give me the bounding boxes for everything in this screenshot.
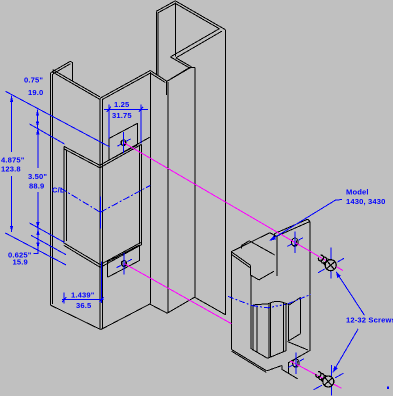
strike cavity left wall vertical (252, 305, 254, 350)
strike faceplate top back edge (275, 219, 308, 233)
screw 2 starburst arm lower left (314, 385, 322, 390)
upper hole crosshair left arm (117, 144, 121, 146)
jamb rabbet ridge outer (100, 71, 150, 99)
strike pocket left edge inner vertical (65, 150, 67, 242)
upper hole crosshair right arm (126, 139, 130, 141)
centerline right arm (100, 185, 150, 212)
jamb backbend right vertical (149, 72, 151, 304)
lower mounting hole ring (122, 261, 127, 267)
dimension 3.50 bottom arrow (36, 222, 39, 229)
strike pocket top left arm outer (64, 146, 100, 165)
strike centerline dash segment 3 (268, 304, 288, 308)
strike lower hole crosshair right arm (300, 359, 304, 361)
strike cavity left wall top (253, 304, 269, 305)
strike body bottom front edge inner (232, 351, 267, 372)
strike body bottom front edge (232, 350, 267, 371)
lower hole crosshair left arm (117, 265, 121, 267)
dimension 1.439 tick right (99, 297, 103, 302)
svg-text:3.50": 3.50" (28, 172, 47, 181)
extension line d3 (30, 223, 65, 243)
strike pocket bottom right arm inner (100, 245, 141, 268)
screw 1 head outer (325, 260, 336, 271)
jamb rabbet top edge outer (53, 70, 100, 97)
jamb face flange inner vertical (72, 63, 74, 81)
jamb front corner vertical outer (99, 98, 101, 329)
tall frame stop front top edge (167, 68, 189, 82)
jamb bottom left edge (50, 305, 100, 330)
magenta projection line from lower hole part 1 (124, 264, 231, 324)
strike centerline dash segment 1 (228, 296, 252, 305)
svg-text:15.9: 15.9 (13, 258, 28, 267)
strike faceplate upper hole inner arc (291, 240, 296, 246)
strike keeper left vertical (268, 304, 270, 358)
tall frame apex left outer edge (156, 1, 175, 12)
svg-text:C/L: C/L (52, 186, 65, 195)
screw 2 head slot cross (325, 378, 332, 386)
extension line d5 (5, 233, 66, 265)
strike body tail bottom edge (282, 369, 298, 379)
strike body rim inner edge (242, 241, 250, 246)
tall frame web inner chevron edge (170, 29, 219, 57)
strike keeper top back edge (284, 303, 289, 305)
strike cavity front vertical (250, 275, 252, 349)
tall frame left flange outer vertical (155, 11, 157, 75)
screw 2 head outer (323, 376, 334, 387)
strike faceplate window top edge (289, 297, 301, 305)
extension line d2 (30, 124, 65, 144)
strike faceplate right edge (309, 222, 311, 351)
strike body front top edge (231, 252, 250, 266)
strike pocket top right arm inner (100, 144, 142, 167)
dimension 4.875 line (11, 96, 13, 233)
tall frame stop step top edge inner (176, 58, 192, 67)
strike pocket top right arm outer (100, 137, 150, 165)
upper lip plate bottom edge (109, 145, 138, 161)
strike body back bottom edge (287, 342, 307, 350)
upper mounting hole ring (121, 140, 126, 146)
strike upper hole crosshair left arm (287, 244, 291, 246)
dimension 0.75 line (37, 109, 39, 128)
jamb backbend cap right edge inner (150, 73, 165, 82)
screws leader 1 arrowhead (336, 272, 341, 278)
strike body keeper back top edge (249, 241, 274, 255)
strike keeper top dome (269, 301, 284, 303)
jamb bottom right edge (101, 304, 151, 330)
jamb face flange cap apex outer (51, 61, 70, 72)
upper lip plate top edge (109, 123, 138, 138)
dimension 1.25 extension right (140, 105, 142, 144)
strike upper hole crosshair vertical (294, 232, 296, 254)
strike faceplate left edge back (274, 234, 276, 238)
upper lip plate left edge (108, 139, 110, 161)
jamb face flange cap right sliver (70, 61, 72, 62)
dimension 3.50 top arrow (36, 128, 39, 135)
dimension 3.50 line (37, 128, 39, 229)
screw 1 starburst vertical (330, 248, 332, 279)
dimension 1.439 extension left (63, 293, 65, 304)
screw 1 head slot cross (327, 261, 334, 269)
lower hole crosshair right arm (128, 259, 132, 261)
strike body front top edge inner (232, 254, 251, 268)
magenta projection line from upper hole to screw 1 (124, 143, 343, 271)
strike pocket bottom left arm outer (64, 243, 100, 265)
strike faceplate lower hole ring (293, 359, 299, 367)
strike body top left edge (231, 233, 270, 252)
dimension 4.875 top arrow (10, 95, 13, 102)
jamb face flange left inner vertical (51, 74, 53, 304)
tall frame stop front top edge inner (169, 67, 192, 80)
magenta projection line from lower hole part 2 (290, 361, 341, 388)
dimension 0.625 bottom arrow (36, 243, 39, 250)
tall frame web inner chevron edge 2 (176, 31, 222, 58)
lower lip plate bottom edge (108, 260, 140, 277)
dimension 1.439 tick left (62, 297, 66, 302)
model leader line (270, 200, 342, 241)
jamb rabbet top edge inner (53, 72, 100, 99)
dimension 1.25 extension left (108, 105, 110, 139)
screw 1 starburst arm lower left (318, 269, 325, 273)
svg-text:36.5: 36.5 (76, 301, 92, 310)
tall frame right edge vertical (225, 30, 227, 315)
svg-text:1.25: 1.25 (114, 100, 130, 109)
dimension 1.439 extension right (101, 262, 103, 304)
dimension 0.625 top arrow (36, 228, 39, 235)
lower lip plate right edge (139, 245, 141, 261)
tall frame stop front vertical 2 (167, 82, 169, 313)
tall frame stop step top edge (170, 57, 189, 68)
strike pocket bottom left arm inner (64, 245, 100, 267)
screws leader 1 (336, 272, 365, 316)
tall frame top apex inner edge (175, 3, 219, 28)
centerline leader from C/L text (61, 188, 101, 212)
strike body top right edge to plate (270, 233, 277, 237)
strike body notch vertical (249, 265, 251, 275)
screw 2 starburst arm upper right (335, 373, 343, 378)
strike cavity floor front edge (252, 349, 268, 358)
centerline vertical tick (99, 196, 101, 228)
svg-text:31.75: 31.75 (112, 111, 132, 120)
strike upper hole crosshair right arm (299, 238, 303, 240)
strike centerline dash segment 4 (288, 295, 311, 304)
upper mounting hole inner arc (121, 141, 125, 146)
strike lower hole crosshair left arm (288, 365, 292, 367)
dimension 4.875 bottom arrow (10, 226, 13, 233)
strike centerline dash segment 2 (252, 306, 268, 308)
svg-text:Model: Model (346, 188, 369, 197)
tall frame web front vertical (194, 68, 196, 298)
tall frame bottom right edge (195, 297, 226, 315)
strike faceplate upper hole ring (292, 238, 298, 246)
strike cavity left wall vertical 2 (256, 306, 258, 353)
strike body tail vertical (281, 366, 283, 370)
upper lip plate right edge (137, 123, 139, 145)
jamb rabbet ridge inner (102, 73, 150, 100)
tall frame apex left inner edge (158, 3, 175, 12)
lower lip plate top edge (108, 245, 140, 262)
tall frame bottom stop edge (167, 297, 194, 313)
dimension 0.625 leader (34, 249, 39, 254)
strike pocket top left arm inner (64, 149, 100, 168)
dimension 1.439 line (62, 299, 104, 301)
strike faceplate window right edge (300, 297, 302, 333)
strike pocket right edge outer vertical (140, 144, 142, 245)
svg-text:123.8: 123.8 (1, 165, 21, 174)
tall frame inner corner vertical (175, 3, 177, 57)
stray blue dot (387, 387, 389, 389)
strike keeper left inner vertical (270, 303, 272, 357)
screw 2 thread coils (316, 372, 328, 382)
dimension 0.75 bottom arrow (36, 122, 39, 129)
dimension 1.25 tick right (139, 107, 143, 112)
lower hole crosshair vertical (123, 253, 125, 275)
svg-text:1.439": 1.439" (71, 291, 95, 300)
svg-text:0.75": 0.75" (24, 76, 43, 85)
strike keeper right vertical (283, 303, 285, 352)
strike faceplate top right sliver (308, 219, 310, 221)
strike cavity floor right edge (268, 351, 287, 359)
strike faceplate lower hole inner arc (293, 361, 298, 367)
svg-text:88.9: 88.9 (29, 182, 44, 191)
strike body left edge vertical (231, 252, 233, 350)
dimension 1.25 tick left (107, 107, 111, 112)
upper hole crosshair vertical (123, 132, 125, 153)
extension line d1 (5, 91, 110, 147)
dimension 1.25 line (104, 108, 148, 110)
model leader arrowhead (269, 236, 276, 241)
strike pocket bottom right arm outer (100, 242, 141, 264)
strike body notch floor right edge (259, 271, 274, 280)
lower lip plate left edge (107, 262, 109, 278)
dimension 0.625 line (37, 229, 39, 250)
tall frame stop front vertical 1 (165, 82, 167, 96)
svg-text:19.0: 19.0 (28, 88, 43, 97)
jamb face flange left outer vertical (49, 73, 51, 306)
screws leader 2 (333, 329, 358, 373)
svg-text:12-32 Screws: 12-32 Screws (346, 316, 393, 325)
jamb backbend cap right edge outer (150, 71, 167, 82)
tall frame profile top apex outer edge (175, 1, 225, 30)
screws leader 2 arrowhead (333, 366, 338, 372)
strike faceplate lip left vertical (287, 363, 289, 374)
strike lower hole crosshair vertical (295, 353, 297, 375)
strike faceplate window bottom edge (289, 334, 301, 341)
lower mounting hole inner arc (121, 261, 125, 266)
tall frame stop corner link (189, 67, 195, 69)
strike body notch floor front edge (250, 275, 259, 280)
strike faceplate bottom edge (288, 350, 310, 362)
strike pocket left edge outer vertical (63, 146, 65, 243)
jamb front corner vertical inner (101, 99, 103, 328)
jamb face flange cap apex inner (53, 64, 70, 74)
svg-text:4.875": 4.875" (1, 156, 25, 165)
screw 2 starburst vertical (331, 365, 333, 396)
strike pocket right edge inner vertical (138, 146, 140, 244)
screw 1 thread coils (318, 255, 330, 265)
tall frame left flange inner vertical (157, 13, 159, 76)
svg-text:1430, 3430: 1430, 3430 (346, 197, 386, 206)
extension line d4 (31, 235, 66, 254)
strike body rim step vertical (241, 245, 243, 248)
tall frame bottom edge left (150, 304, 167, 313)
strike body bottom right edge (267, 366, 282, 371)
strike faceplate top front edge (277, 222, 310, 237)
strike faceplate window left edge (288, 305, 290, 341)
screw 1 starburst arm upper right (338, 258, 345, 262)
strike faceplate left edge front (276, 236, 278, 276)
dimension 0.75 top arrow (36, 109, 39, 116)
strike keeper right inner vertical (285, 303, 287, 351)
